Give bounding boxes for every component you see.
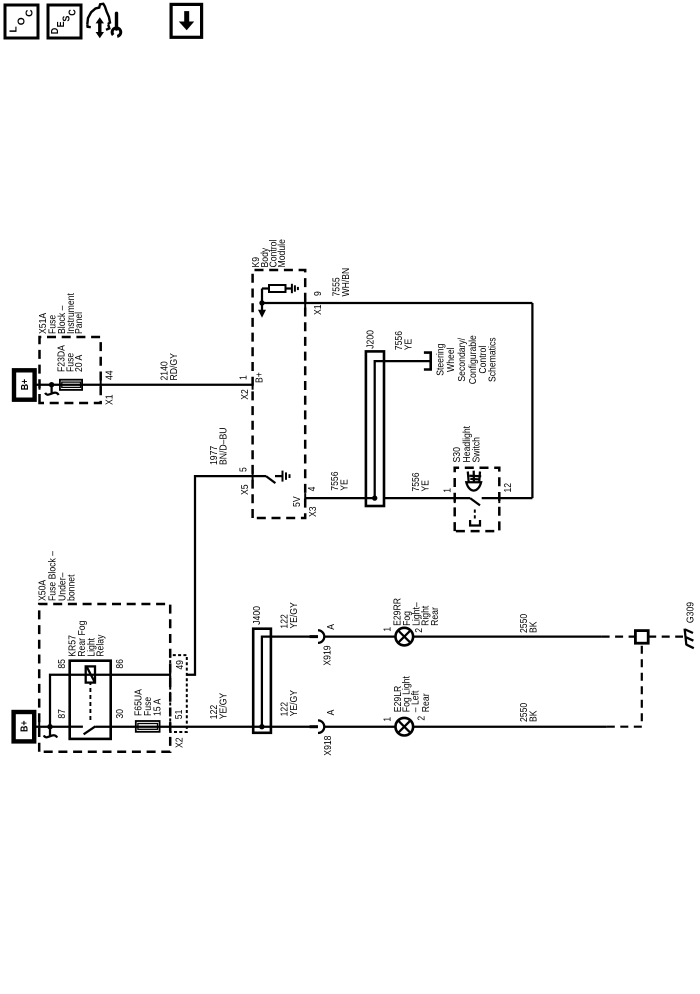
- svg-text:1: 1: [239, 375, 250, 380]
- wire E29LR 2550 BK: [413, 726, 607, 728]
- BCM internal junction dot: [259, 300, 264, 305]
- svg-text:YE/GY: YE/GY: [289, 690, 300, 717]
- S30 switch blade: [470, 498, 480, 505]
- junction dot X50A: [47, 724, 52, 729]
- fuse block X51A dashed box: [40, 337, 101, 403]
- terminal X919: [310, 630, 325, 643]
- wire J200 to S30 pin 1: [384, 497, 470, 499]
- svg-text:C: C: [68, 9, 79, 16]
- pin tick S30 pin 12: [498, 493, 500, 503]
- label E29LR Fog Light Left Rear: [393, 676, 432, 712]
- pin tick X50A entry: [38, 722, 40, 732]
- relay coil: [86, 666, 95, 682]
- dashed wire LR to splice square: [607, 643, 642, 727]
- splice continuation squiggle X51A: [45, 385, 58, 395]
- wire BCM X1-9 down to loop: [262, 302, 532, 304]
- pin tick 51: [169, 722, 171, 732]
- svg-text:O: O: [17, 17, 28, 25]
- BCM internal ground: [286, 284, 298, 293]
- label KR57 Rear Fog Light Relay: [68, 620, 107, 656]
- svg-text:9: 9: [313, 291, 324, 296]
- wire label 7556 YE branch: [394, 331, 415, 350]
- svg-text:X919: X919: [322, 645, 333, 665]
- wire label 122 YE/GY to J400: [209, 693, 230, 720]
- svg-text:86: 86: [115, 659, 126, 669]
- pin tick X3-4: [304, 493, 306, 503]
- BCM internal arrow left: [258, 303, 266, 318]
- svg-text:85: 85: [57, 659, 68, 669]
- svg-text:BN/D–BU: BN/D–BU: [219, 428, 230, 466]
- branch wire in J200 to steering reference: [375, 361, 431, 498]
- svg-text:D: D: [50, 28, 61, 35]
- svg-text:Switch: Switch: [472, 437, 483, 463]
- svg-text:X3: X3: [308, 506, 319, 517]
- fuse block X50A dashed box: [39, 604, 170, 752]
- splice square: [635, 631, 648, 644]
- relay switch wire 87: [70, 726, 83, 728]
- svg-text:1: 1: [383, 717, 394, 722]
- lamp E29RR: [396, 628, 414, 646]
- pin tick S30 pin 1: [454, 493, 456, 503]
- pin tick X51A entry: [39, 380, 41, 390]
- svg-text:2: 2: [416, 716, 427, 721]
- junction dot in J200: [372, 495, 377, 500]
- svg-text:51: 51: [174, 709, 185, 719]
- body control module K9 dashed box: [253, 270, 306, 518]
- label X51A Fuse Block - Instrument Panel: [38, 293, 85, 334]
- svg-text:Wheel: Wheel: [446, 347, 457, 372]
- svg-text:J200: J200: [366, 330, 377, 349]
- label S30 Headlight Switch: [452, 426, 483, 463]
- BCM switch ground symbol: [275, 471, 290, 482]
- branch wire in J400: [253, 637, 271, 727]
- relay KR57 box: [70, 661, 111, 739]
- headlight switch S30 dashed box: [455, 468, 500, 531]
- svg-text:B+: B+: [255, 372, 266, 383]
- lamp E29LR: [396, 718, 414, 736]
- svg-text:4: 4: [307, 486, 318, 491]
- icon vehicle with arrow and wrench: [87, 4, 120, 38]
- connector X2 dotted box: [170, 655, 187, 732]
- relay switch wire 30: [95, 726, 253, 728]
- wire to relay pin 85: [50, 675, 170, 727]
- wire label 2550 BK LR: [519, 703, 540, 722]
- svg-text:C: C: [24, 9, 35, 17]
- wire label 122 YE/GY X919 branch: [279, 602, 300, 629]
- svg-text:YE/GY: YE/GY: [289, 602, 300, 629]
- inline connector J200: [366, 351, 384, 506]
- pin tick X2-1 BCM: [252, 380, 254, 390]
- wire label 7556 YE: [330, 471, 351, 490]
- label Steering Wheel Secondary Configurable Control Schematics: [435, 335, 498, 384]
- dashed wire RR to splice square: [602, 635, 636, 637]
- svg-text:Module: Module: [277, 239, 288, 268]
- svg-text:J400: J400: [252, 606, 263, 625]
- svg-text:Secondary/: Secondary/: [457, 338, 468, 382]
- svg-text:BK: BK: [529, 710, 540, 722]
- svg-text:WH/BN: WH/BN: [341, 268, 352, 297]
- battery terminal B+ X51A feed: [14, 370, 35, 399]
- off-page bracket: [424, 353, 431, 370]
- svg-text:RD/GY: RD/GY: [169, 353, 180, 380]
- S30 headlight icon: [466, 471, 481, 491]
- svg-text:B+: B+: [20, 721, 31, 733]
- ground G309: [685, 629, 694, 649]
- svg-text:YE/GY: YE/GY: [219, 693, 230, 720]
- svg-text:2: 2: [414, 628, 425, 633]
- svg-text:X1: X1: [313, 304, 324, 315]
- relay dashed actuator link: [89, 683, 91, 720]
- icon DESC button: [48, 5, 81, 38]
- wire X918 to E29LR: [324, 726, 395, 728]
- svg-text:B+: B+: [20, 379, 31, 391]
- svg-text:Rear: Rear: [421, 693, 432, 712]
- svg-text:G309: G309: [685, 602, 696, 623]
- wire J400 to X918: [262, 726, 310, 728]
- label F65UA Fuse 15 A: [134, 689, 164, 716]
- wire E29RR 2550 BK: [413, 635, 601, 637]
- svg-text:YE: YE: [421, 480, 432, 492]
- wire label 2550 BK RR: [519, 614, 540, 633]
- svg-text:X2: X2: [174, 737, 185, 748]
- svg-text:bonnet: bonnet: [67, 574, 78, 601]
- S30 detent dashed link: [474, 507, 476, 519]
- battery terminal B+ X50A feed: [14, 712, 35, 741]
- label X50A Fuse Block - Underbonnet: [37, 551, 77, 601]
- wire label 2140 RD/GY: [160, 353, 181, 380]
- svg-text:Steering: Steering: [435, 343, 446, 375]
- wire X919 to E29RR: [324, 635, 395, 637]
- svg-text:5: 5: [239, 467, 250, 472]
- svg-text:30: 30: [115, 709, 126, 719]
- svg-text:Schematics: Schematics: [488, 337, 499, 382]
- junction dot in X51A: [49, 382, 54, 387]
- svg-text:X5: X5: [240, 484, 251, 495]
- svg-text:1: 1: [383, 627, 394, 632]
- fuse F23DA 20A: [60, 380, 82, 390]
- svg-text:A: A: [326, 624, 337, 630]
- wire 7556 YE BCM X3-4 to J200: [305, 497, 375, 499]
- svg-text:L: L: [8, 26, 19, 32]
- relay switch blade: [84, 726, 96, 734]
- svg-text:X2: X2: [240, 389, 251, 400]
- label K9 Body Control Module: [251, 239, 288, 268]
- svg-text:X918: X918: [323, 735, 334, 755]
- fuse F65UA 15A: [136, 721, 160, 732]
- icon LOC button: [5, 5, 38, 38]
- icon back-arrow button: [171, 4, 202, 37]
- wire S30 pin12 loop to BCM X1-9: [531, 303, 533, 498]
- svg-text:87: 87: [57, 709, 68, 719]
- svg-text:Rear: Rear: [430, 607, 441, 626]
- pin tick X1-9: [304, 298, 306, 308]
- label F23DA Fuse 20 A: [57, 345, 85, 372]
- wire label 1977 BN/D-BU: [209, 428, 230, 466]
- wire B+ to fuse block X51A: [34, 384, 253, 386]
- svg-text:BK: BK: [529, 621, 540, 633]
- svg-text:5V: 5V: [292, 496, 303, 507]
- terminal X918: [310, 720, 325, 733]
- label E29RR Fog Light Right Rear: [393, 598, 441, 626]
- pin tick 49: [169, 670, 171, 680]
- svg-text:49: 49: [175, 660, 186, 670]
- S30 detent bracket: [470, 520, 480, 526]
- wire label 7555 WH/BN: [332, 268, 353, 297]
- svg-text:20 A: 20 A: [74, 355, 85, 372]
- pin tick X5-5: [252, 471, 254, 481]
- wire J400 branch to X919: [271, 635, 310, 637]
- wire 1977 BN/D-BU BCM X5 to relay 86: [187, 476, 253, 675]
- svg-text:1: 1: [443, 488, 454, 493]
- svg-text:44: 44: [105, 370, 116, 380]
- svg-text:X1: X1: [105, 394, 116, 405]
- dashed wire square to G309: [648, 635, 683, 637]
- svg-text:12: 12: [503, 483, 514, 493]
- svg-text:A: A: [326, 709, 337, 715]
- svg-text:– Left: – Left: [410, 690, 421, 712]
- wire label 7556 YE to S30: [411, 472, 432, 491]
- svg-text:Relay: Relay: [95, 634, 106, 657]
- svg-text:15 A: 15 A: [153, 699, 164, 716]
- BCM internal resistor: [262, 285, 286, 303]
- pin tick 44 X1: [100, 380, 102, 390]
- svg-text:YE: YE: [404, 339, 415, 351]
- wire B+ into X50A: [33, 726, 70, 728]
- wire label 122 YE/GY X918 branch: [279, 690, 300, 717]
- BCM X5 switch to ground: [253, 476, 276, 483]
- svg-text:YE: YE: [340, 479, 351, 491]
- svg-text:Panel: Panel: [74, 312, 85, 334]
- S30 wire blade to pin 12 and loop: [482, 497, 533, 499]
- splice continuation squiggle X50A: [44, 727, 57, 738]
- inline connector J400: [253, 629, 271, 733]
- junction dot in J400: [259, 724, 264, 729]
